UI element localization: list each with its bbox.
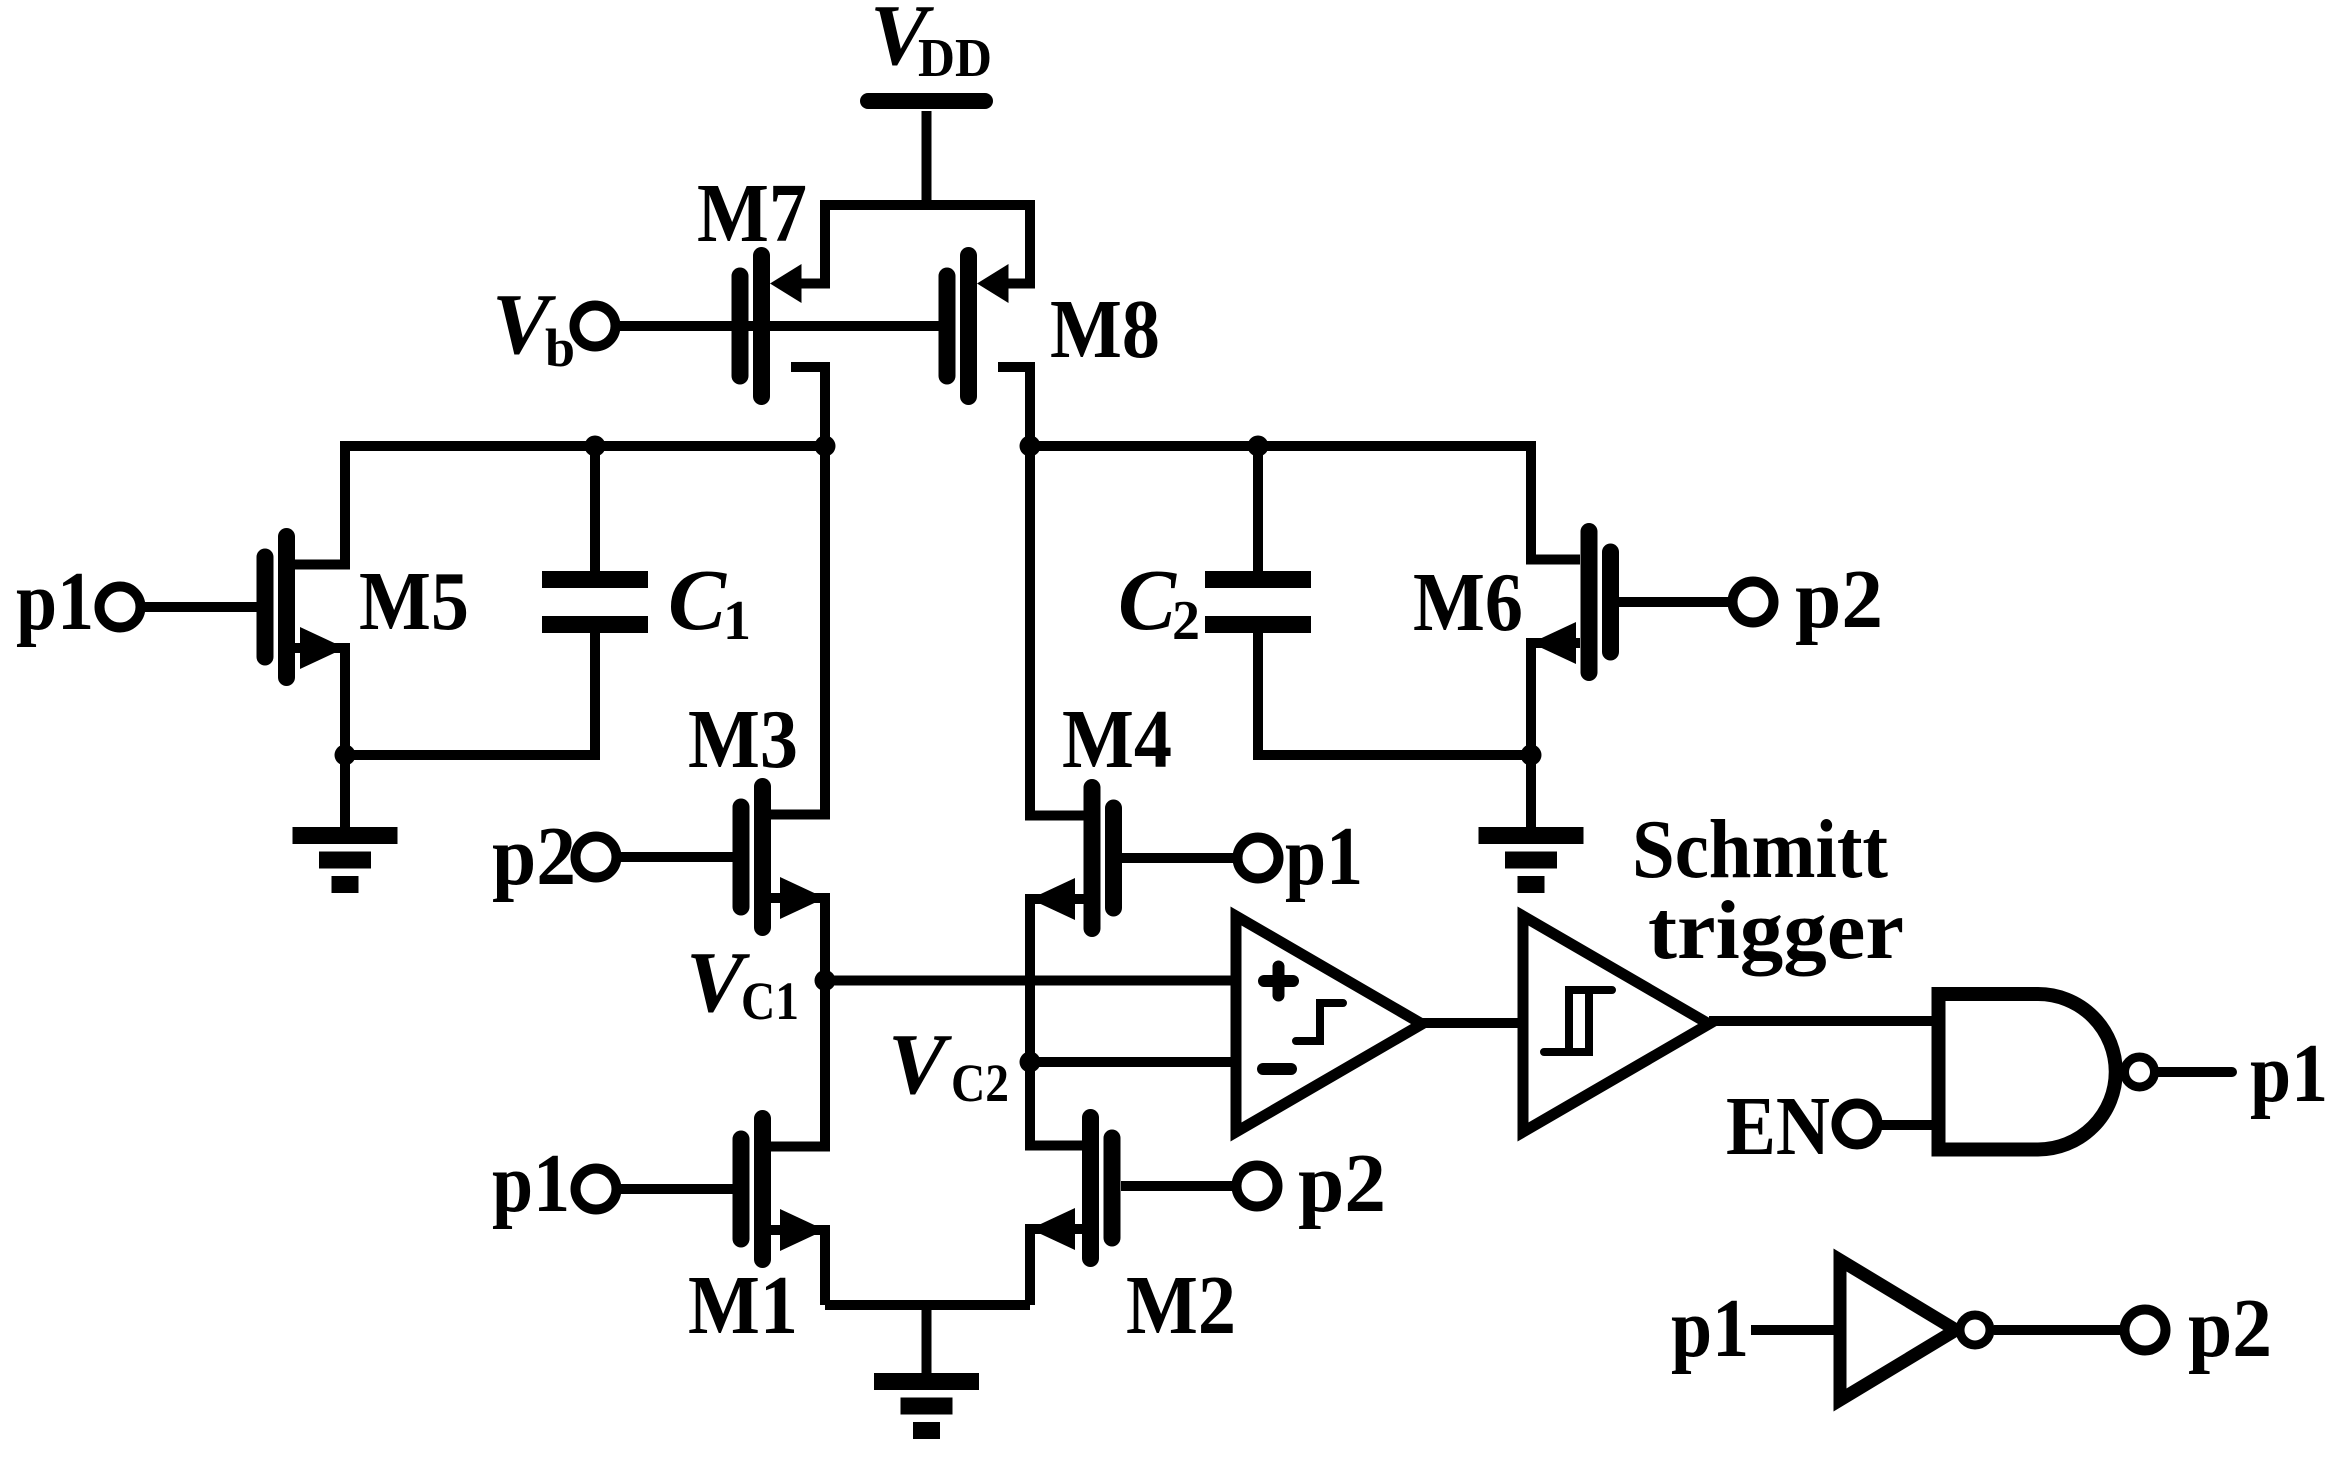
svg-text:trigger: trigger <box>1648 884 1904 977</box>
svg-text:V: V <box>888 1015 952 1112</box>
svg-text:p1: p1 <box>1285 810 1363 903</box>
svg-text:p1: p1 <box>2250 1027 2328 1120</box>
svg-text:p1: p1 <box>492 1137 570 1230</box>
svg-text:Schmitt: Schmitt <box>1632 803 1888 896</box>
svg-text:p2: p2 <box>2188 1282 2272 1375</box>
svg-text:EN: EN <box>1726 1080 1830 1173</box>
svg-text:DD: DD <box>918 27 992 88</box>
svg-text:C2: C2 <box>951 1053 1009 1113</box>
svg-text:M3: M3 <box>688 693 798 786</box>
svg-text:M4: M4 <box>1062 693 1172 786</box>
svg-text:C: C <box>1118 551 1177 648</box>
svg-text:M8: M8 <box>1050 283 1160 376</box>
svg-text:p1: p1 <box>16 555 94 648</box>
svg-text:p2: p2 <box>1298 1137 1386 1230</box>
svg-text:b: b <box>545 318 575 378</box>
svg-text:M6: M6 <box>1413 556 1523 649</box>
svg-text:C1: C1 <box>741 971 799 1031</box>
svg-text:p2: p2 <box>492 810 576 903</box>
svg-text:p2: p2 <box>1795 553 1883 646</box>
svg-text:1: 1 <box>723 590 751 652</box>
svg-text:p1: p1 <box>1671 1282 1749 1375</box>
svg-text:C: C <box>668 551 727 648</box>
svg-text:M2: M2 <box>1126 1259 1236 1352</box>
svg-text:M5: M5 <box>359 555 469 648</box>
svg-text:2: 2 <box>1172 590 1200 652</box>
svg-text:M7: M7 <box>697 167 807 260</box>
svg-text:M1: M1 <box>688 1259 798 1352</box>
